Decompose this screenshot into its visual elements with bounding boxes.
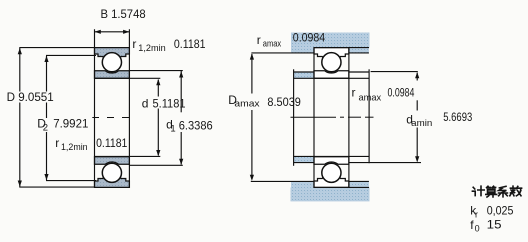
bearing right face xyxy=(348,48,350,188)
svg-text:0: 0 xyxy=(475,223,480,233)
Damax dimension xyxy=(251,54,253,179)
shaft shoulder top strip xyxy=(294,157,314,163)
svg-text:r: r xyxy=(257,33,261,47)
shaft shoulder face xyxy=(293,69,295,166)
svg-text:r: r xyxy=(132,37,136,51)
svg-text:1: 1 xyxy=(170,124,175,135)
d dimension xyxy=(157,80,159,156)
svg-text:amax: amax xyxy=(234,98,259,109)
svg-text:8.5039: 8.5039 xyxy=(267,95,301,109)
damin dimension xyxy=(416,73,418,161)
计 xyxy=(472,186,484,195)
centerline right xyxy=(291,116,374,118)
housing shoulder top edge bottom + Da ext xyxy=(251,180,314,182)
svg-text:r: r xyxy=(475,209,478,219)
bearing sections (white rings) xyxy=(314,48,349,188)
系 xyxy=(499,186,508,197)
bottom-right shoulder xyxy=(294,72,314,78)
svg-text:1,2min: 1,2min xyxy=(138,43,165,54)
bearing sections (shaded rings) xyxy=(95,48,130,188)
算 xyxy=(486,186,497,197)
svg-text:0,025: 0,025 xyxy=(487,203,514,217)
housing bore line top (OD) xyxy=(314,47,369,49)
shaft bottom da line xyxy=(294,162,314,164)
top band xyxy=(291,48,314,54)
svg-text:d: d xyxy=(142,96,149,110)
bottom band xyxy=(291,181,314,187)
bottom-left shoulder xyxy=(349,181,369,187)
bearing left face xyxy=(313,48,315,188)
left face line (extends up for B dim) xyxy=(94,29,96,187)
svg-text:2: 2 xyxy=(43,123,48,134)
d1 dimension xyxy=(129,71,182,166)
right da line top + ext xyxy=(349,71,369,73)
bore bottom line xyxy=(294,155,370,157)
svg-text:15: 15 xyxy=(487,218,502,232)
D2 dimension xyxy=(46,55,96,180)
svg-text:r: r xyxy=(55,136,59,150)
svg-text:6.3386: 6.3386 xyxy=(179,119,213,133)
svg-text:1,2min: 1,2min xyxy=(61,142,88,153)
svg-text:0.0984: 0.0984 xyxy=(293,31,326,45)
svg-text:5.1181: 5.1181 xyxy=(153,96,186,110)
bore top line extended right xyxy=(95,77,161,79)
计算系数 (hand-drawn CJK glyphs, bold) xyxy=(472,186,521,197)
svg-text:amax: amax xyxy=(359,93,382,104)
svg-text:r: r xyxy=(352,85,356,99)
svg-text:0.0984: 0.0984 xyxy=(388,85,415,99)
svg-text:0.1181: 0.1181 xyxy=(174,37,206,51)
svg-text:D 9.0551: D 9.0551 xyxy=(7,90,54,104)
B dimension xyxy=(95,31,129,33)
bearing bottom section xyxy=(95,157,130,188)
top-left shoulder xyxy=(349,48,369,54)
svg-text:amax: amax xyxy=(263,38,282,49)
bearing top section xyxy=(95,48,130,79)
centerline left xyxy=(92,117,129,119)
svg-text:5.6693: 5.6693 xyxy=(443,110,472,124)
shaft top da line xyxy=(294,71,314,73)
shaft right end face xyxy=(368,69,370,163)
bore bottom line extended right xyxy=(95,155,161,157)
right da line bottom + ext xyxy=(349,162,421,164)
housing bore line bottom xyxy=(314,186,369,188)
housing shading xyxy=(291,33,370,202)
svg-text:amin: amin xyxy=(411,118,432,129)
top-right shoulder xyxy=(291,187,370,201)
housing shoulder bottom edge top + Da ext xyxy=(251,52,314,54)
D dimension xyxy=(19,48,94,188)
bearing side faces / bore edges xyxy=(95,29,161,187)
数 xyxy=(510,186,522,196)
svg-text:0.1181: 0.1181 xyxy=(96,136,128,150)
right face line xyxy=(128,29,130,187)
svg-text:7.9921: 7.9921 xyxy=(53,116,89,130)
right bearing faces & housing/shaft lines xyxy=(251,48,421,188)
svg-text:B 1.5748: B 1.5748 xyxy=(101,7,146,21)
bore top line (shaft surface) xyxy=(294,77,370,79)
